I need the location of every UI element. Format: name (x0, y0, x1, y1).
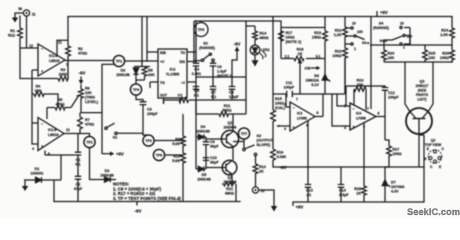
capacitor C4 0.001 (192, 63, 201, 77)
svg-text:S3: S3 (257, 134, 262, 138)
svg-text:5.6K: 5.6K (172, 142, 180, 146)
svg-text:100pF: 100pF (284, 86, 295, 90)
svg-text:R11: R11 (224, 104, 231, 108)
svg-text:C: C (430, 165, 433, 169)
capacitor C6 1.0uF (210, 61, 234, 78)
svg-text:R2: R2 (78, 47, 83, 51)
node -9V arrow mid (232, 42, 240, 78)
svg-text:1N914B: 1N914B (116, 73, 130, 77)
node +9V near S1 (102, 151, 124, 156)
svg-text:(SEE: (SEE (418, 89, 427, 93)
svg-text:-9V: -9V (135, 209, 142, 214)
svg-text:OUT: OUT (160, 94, 168, 98)
switch S4-b (373, 22, 412, 50)
svg-text:10K: 10K (148, 73, 155, 77)
svg-text:LM318: LM318 (48, 133, 59, 137)
resistor R27 100ohm (385, 140, 402, 167)
wire IC4 inputs (332, 94, 350, 126)
svg-text:R16: R16 (277, 151, 284, 155)
svg-text:TP4: TP4 (133, 88, 139, 92)
resistor R12 680ohm (222, 175, 236, 202)
svg-text:R7: R7 (85, 118, 90, 122)
svg-text:TH: TH (180, 51, 185, 55)
svg-text:100Ω: 100Ω (275, 102, 284, 106)
svg-text:R24: R24 (441, 29, 449, 33)
wire IC4 output col (376, 90, 385, 140)
svg-text:100Ω: 100Ω (332, 54, 341, 58)
svg-text:R28: R28 (354, 187, 361, 191)
ground under D1 (22, 180, 28, 191)
svg-text:D7: D7 (391, 181, 396, 185)
resistor R16 4.03K (271, 149, 288, 167)
wire IC2 right pins (187, 21, 196, 114)
svg-text:LM318: LM318 (49, 59, 60, 63)
svg-text:R17: R17 (286, 31, 293, 35)
svg-text:100pF: 100pF (388, 96, 399, 100)
svg-text:B: B (424, 157, 427, 161)
resistor (555 output) (179, 98, 189, 103)
resistor R3 100K (20, 48, 68, 81)
svg-text:2N6117: 2N6117 (416, 84, 429, 88)
resistor R20 10K (382, 45, 395, 62)
wire Q1 emitter col (232, 114, 234, 160)
svg-text:6: 6 (317, 111, 319, 115)
capacitor C14 1.0uF (338, 167, 350, 202)
svg-text:Q3: Q3 (431, 139, 436, 143)
wire TP1 to R9 col (125, 17, 150, 68)
svg-text:10K: 10K (85, 91, 92, 95)
svg-text:4: 4 (32, 147, 34, 151)
svg-text:51Ω: 51Ω (8, 34, 15, 38)
svg-text:Q1: Q1 (228, 121, 233, 125)
svg-text:C4: C4 (194, 68, 200, 72)
zener D7 1N748A 4.3V (382, 167, 405, 202)
svg-text:E: E (439, 165, 442, 169)
svg-text:1N914B: 1N914B (197, 178, 211, 182)
svg-text:4.03K: 4.03K (277, 155, 287, 159)
svg-text:3: 3 (284, 127, 286, 131)
svg-text:10K: 10K (388, 56, 395, 60)
svg-text:R8: R8 (175, 138, 180, 142)
wire IC3 pin4 drop (307, 121, 309, 167)
svg-text:C13: C13 (306, 189, 313, 193)
wire caps row100 (164, 100, 247, 104)
wire IC3 inputs (286, 94, 323, 117)
svg-text:100Ω: 100Ω (286, 36, 295, 40)
resistor R7 470ohm (78, 113, 95, 134)
capacitor C7 0.1 (210, 77, 216, 100)
svg-text:12: 12 (29, 44, 33, 48)
transistor Q1 2N3906 (206, 121, 239, 148)
op-amp IC1-b LM318 (32, 118, 70, 157)
resistor R10 5.6K (172, 153, 185, 202)
svg-text:S1: S1 (113, 136, 118, 140)
capacitor C13 .01 (305, 167, 313, 202)
resistor R9 10K (142, 67, 155, 80)
transistor Q3 2N6117 (406, 80, 432, 135)
transistor Q2 2N3904 (206, 160, 237, 184)
box R17 R19 (281, 17, 325, 59)
wire bus62 (384, 61, 453, 63)
svg-text:100pF: 100pF (147, 112, 158, 116)
svg-text:S4-a: S4-a (362, 41, 369, 45)
resistor R13 1K (253, 156, 266, 187)
svg-text:D1: D1 (35, 167, 40, 171)
capacitor C10 30pF (203, 156, 220, 165)
wire pin11 feedback (57, 40, 68, 55)
capacitor C5 0.1 (193, 87, 199, 98)
svg-text:+V: +V (160, 60, 165, 64)
resistor R1 51ohm (8, 16, 22, 49)
resistor R8 5.6K (172, 114, 185, 153)
svg-text:LF356: LF356 (297, 117, 307, 121)
svg-text:1.0μF: 1.0μF (229, 95, 239, 99)
capacitor C12 100pF (346, 86, 399, 106)
op-amp IC1-a LM318 (29, 41, 68, 77)
svg-text:(RANGE): (RANGE) (373, 26, 390, 30)
wire bottom left -9V rail (54, 201, 240, 203)
svg-text:S2: S2 (203, 42, 208, 46)
wire IC2 left pins (147, 17, 158, 89)
capacitor C3 100pF (136, 95, 158, 135)
svg-text:SLOPE): SLOPE) (257, 143, 271, 147)
wire +9V to IC4 pin7 (370, 17, 372, 110)
diode D2 1N914B (116, 67, 138, 81)
svg-text:100K: 100K (59, 73, 68, 77)
svg-text:1N4001: 1N4001 (31, 172, 44, 176)
svg-text:R25: R25 (429, 52, 436, 56)
IC2 TLC555 (158, 49, 187, 98)
svg-text:1.2K: 1.2K (334, 33, 342, 37)
svg-text:R6: R6 (85, 87, 90, 91)
wire TP5 box (194, 21, 281, 114)
svg-text:47μF: 47μF (74, 187, 83, 191)
wire mid -9V rail (288, 166, 424, 168)
svg-text:R27: R27 (393, 148, 400, 152)
svg-text:J1: J1 (32, 13, 36, 17)
resistor R2 470ohm (66, 17, 88, 61)
wire row94 (273, 58, 345, 94)
svg-text:C3: C3 (147, 108, 152, 112)
svg-text:2N3906: 2N3906 (224, 126, 237, 130)
svg-text:1K: 1K (356, 192, 361, 196)
capacitor C1 0.1 (75, 152, 81, 166)
wire IC1a output to TP1 (65, 60, 113, 62)
svg-text:1.0μF: 1.0μF (339, 193, 349, 197)
test point TP5 (194, 23, 208, 37)
svg-text:-9V: -9V (79, 71, 86, 76)
svg-text:R4: R4 (36, 85, 42, 89)
svg-text:R14: R14 (260, 32, 268, 36)
diode D4 1N914B (196, 125, 210, 140)
svg-text:(OUTPUT: (OUTPUT (257, 139, 274, 143)
svg-text:R19: R19 (314, 31, 321, 35)
resistor R19 150ohm (312, 31, 328, 59)
capacitor C9 30pF (203, 137, 220, 169)
svg-text:1.0K: 1.0K (440, 33, 448, 37)
svg-text:TP6: TP6 (156, 154, 162, 158)
svg-text:SeekIC.com: SeekIC.com (407, 207, 460, 217)
svg-text:(NOTE 2): (NOTE 2) (286, 40, 303, 44)
svg-text:1K: 1K (259, 170, 264, 174)
svg-text:R12: R12 (226, 187, 233, 191)
wire IC1b output (64, 134, 90, 153)
resistor R22 100ohm (332, 48, 347, 94)
svg-text:C14: C14 (339, 189, 347, 193)
svg-text:(CAL): (CAL) (275, 106, 286, 110)
op-amp IC4 LF356 (344, 103, 379, 130)
diode D5 1N914B (196, 166, 211, 181)
svg-text:D5: D5 (202, 173, 207, 177)
svg-text:1K: 1K (298, 52, 303, 56)
svg-text:TP2: TP2 (86, 141, 92, 145)
svg-text:680Ω: 680Ω (260, 36, 269, 40)
svg-text:6: 6 (378, 112, 380, 116)
svg-text:6.1V: 6.1V (311, 83, 319, 87)
svg-text:D2: D2 (121, 69, 126, 73)
node -9V above R6 (79, 71, 86, 85)
svg-text:IC1-b: IC1-b (48, 128, 56, 132)
svg-text:E: E (427, 147, 430, 151)
svg-text:10: 10 (352, 22, 356, 26)
svg-text:−: − (41, 122, 43, 126)
svg-text:LF356: LF356 (356, 117, 366, 121)
svg-text:R15: R15 (275, 97, 282, 101)
svg-text:30pF: 30pF (210, 161, 219, 165)
wire TP3 to R8 col (154, 140, 183, 142)
resistor R11 560ohm (196, 104, 233, 116)
svg-text:C9: C9 (210, 140, 215, 144)
svg-text:1N914B: 1N914B (100, 173, 114, 177)
svg-text:+: + (41, 70, 43, 74)
svg-text:680Ω: 680Ω (225, 192, 234, 196)
svg-text:(RANGE): (RANGE) (199, 46, 216, 50)
svg-text:-9V: -9V (234, 42, 241, 47)
svg-text:−: − (293, 106, 295, 110)
wire col196 (195, 100, 197, 169)
svg-text:R/B: R/B (160, 51, 166, 55)
wire plus input col (32, 70, 38, 144)
wire caps row77 (196, 76, 246, 78)
jack J1 (18, 7, 35, 17)
svg-text:R3: R3 (61, 68, 66, 72)
wire C1 row (45, 151, 75, 181)
svg-text:Q3: Q3 (420, 80, 425, 84)
potentiometer R6 10K TRIG LEVEL (71, 85, 102, 113)
capacitor C11 100pF (284, 81, 295, 97)
wire top +9V rail (68, 16, 452, 18)
svg-text:−: − (41, 47, 43, 51)
diode D3 1N914B lower (90, 148, 117, 183)
svg-text:C5: C5 (194, 89, 199, 93)
svg-text:-9V: -9V (280, 165, 287, 170)
wire TP6 to col (165, 154, 183, 156)
wire IC1b minus input (32, 122, 38, 124)
svg-text:C2: C2 (76, 183, 81, 187)
svg-text:CW: CW (305, 67, 312, 71)
resistor R21 1.2K (334, 17, 348, 49)
resistor R17 100ohm NOTE 2 (279, 31, 302, 44)
svg-text:C7: C7 (211, 91, 216, 95)
svg-text:.01: .01 (306, 193, 311, 197)
wire D2 R9 join to TP4 (136, 80, 145, 84)
svg-text:LEVEL): LEVEL) (85, 100, 99, 104)
capacitor C2 47uF (74, 155, 83, 202)
svg-text:C11: C11 (286, 81, 293, 85)
svg-text:IC4: IC4 (356, 112, 361, 116)
svg-text:(TRIG: (TRIG (85, 96, 95, 100)
svg-text:C: C (442, 147, 445, 151)
svg-text:3. TP = TEST POINTS (SEE FIG.4: 3. TP = TEST POINTS (SEE FIG.4) (113, 196, 181, 201)
svg-text:D6: D6 (314, 74, 319, 78)
resistor R4 15K (32, 85, 58, 108)
svg-text:1N914B: 1N914B (196, 130, 210, 134)
node +9V top (377, 10, 388, 17)
svg-text:LED1: LED1 (261, 48, 270, 52)
svg-text:TP7: TP7 (241, 132, 247, 136)
svg-text:R23: R23 (357, 79, 364, 83)
svg-text:10K: 10K (429, 56, 436, 60)
node +9V bottom right (293, 202, 303, 210)
svg-text:IC3: IC3 (297, 112, 302, 116)
node -9V bottom left (135, 202, 142, 214)
svg-text:R21: R21 (335, 29, 342, 33)
svg-text:470Ω: 470Ω (78, 52, 87, 56)
wire LED down arrow (252, 55, 259, 67)
svg-text:+: + (41, 145, 43, 149)
resistor R24 1.0K (440, 17, 454, 46)
potentiometer R15 100ohm CAL (271, 17, 290, 150)
svg-text:0.001: 0.001 (192, 72, 201, 76)
test point TP1 (113, 55, 124, 66)
test point TP3 (143, 135, 154, 146)
svg-text:−: − (353, 107, 355, 111)
wire IC4 pin4 drop (363, 123, 365, 168)
test point TP6 (153, 149, 164, 160)
resistor R14 680ohm (246, 26, 269, 45)
switch S1 (105, 123, 143, 139)
svg-text:3.1: 3.1 (316, 55, 321, 59)
svg-text:R1: R1 (10, 29, 15, 33)
wire Q3 leads (405, 62, 433, 202)
svg-text:1N823A: 1N823A (305, 79, 319, 83)
svg-text:1N748A: 1N748A (391, 185, 405, 189)
svg-text:IN: IN (18, 7, 22, 11)
svg-text:TG: TG (160, 81, 165, 85)
wire IC2 bottom pins (164, 98, 181, 104)
NOTES (113, 182, 181, 201)
svg-text:30pF: 30pF (210, 145, 219, 149)
svg-text:−V: −V (181, 81, 186, 85)
svg-text:+9V: +9V (296, 205, 304, 210)
switch S2 RANGE (194, 21, 216, 61)
svg-text:R13: R13 (259, 165, 266, 169)
svg-text:R18: R18 (297, 48, 304, 52)
svg-text:7: 7 (296, 98, 298, 102)
svg-text:560Ω: 560Ω (222, 109, 231, 113)
wire J1 down (26, 16, 28, 48)
svg-text:DIS: DIS (179, 60, 185, 64)
switch S4-a (345, 22, 369, 52)
svg-text:1: 1 (403, 46, 405, 50)
svg-text:IC2: IC2 (170, 68, 176, 72)
svg-text:LIST): LIST) (417, 98, 427, 102)
test point TP2 (84, 136, 95, 147)
ground under J1 (12, 13, 24, 23)
svg-text:100Ω: 100Ω (393, 152, 402, 156)
svg-text:C10: C10 (210, 156, 217, 160)
svg-text:5.6K: 5.6K (172, 159, 180, 163)
svg-text:1: 1 (354, 47, 356, 51)
wire bottom right rail (293, 201, 424, 203)
svg-text:10: 10 (400, 22, 404, 26)
resistor R26 100ohm (440, 45, 455, 62)
resistor R23 20K (354, 79, 366, 111)
svg-text:100: 100 (357, 30, 363, 34)
svg-text:4.3V: 4.3V (391, 190, 399, 194)
svg-text:+: + (353, 125, 355, 129)
svg-text:TLC555: TLC555 (166, 73, 179, 77)
svg-text:D4: D4 (201, 125, 207, 129)
svg-text:150Ω: 150Ω (312, 36, 321, 40)
svg-text:0.1: 0.1 (211, 95, 216, 99)
zener D6 1N823A 6.1V (305, 59, 330, 95)
wire to bottom rail (53, 180, 55, 202)
svg-text:R20: R20 (388, 52, 395, 56)
svg-text:7: 7 (367, 107, 369, 111)
svg-text:+9V: +9V (116, 152, 124, 157)
svg-text:470Ω: 470Ω (55, 103, 64, 107)
svg-text:C6: C6 (217, 65, 222, 69)
Q3 top view (424, 139, 444, 170)
svg-text:R5: R5 (58, 98, 63, 102)
svg-text:R22: R22 (335, 50, 342, 54)
op-amp IC3 LF356 (284, 98, 318, 132)
svg-text:C8: C8 (229, 91, 234, 95)
svg-text:12: 12 (66, 128, 70, 132)
svg-text:100Ω: 100Ω (440, 56, 449, 60)
svg-text:TP3: TP3 (145, 139, 151, 143)
svg-text:R9: R9 (148, 69, 153, 73)
capacitor C8 1.0uF (229, 77, 240, 100)
potentiometer R18 1K (285, 48, 321, 95)
wire input node (20, 47, 38, 49)
svg-text:S4: S4 (379, 22, 384, 26)
LED1 (250, 45, 270, 59)
svg-text:TP5: TP5 (198, 28, 204, 32)
resistor R25 10K (423, 45, 436, 62)
resistor R5 470ohm (47, 98, 71, 119)
svg-text:+9V: +9V (380, 10, 388, 15)
svg-text:+: + (293, 126, 295, 130)
svg-text:470Ω: 470Ω (85, 123, 94, 127)
svg-text:C12: C12 (388, 91, 395, 95)
ground right of J2 (259, 190, 278, 212)
diode D1 1N4001 (24, 167, 61, 183)
svg-text:TP1: TP1 (116, 60, 122, 64)
svg-text:R26: R26 (442, 52, 449, 56)
jack J2 (252, 187, 264, 193)
wire S1 riser (102, 64, 115, 153)
switch S3 OUTPUT SLOPE (233, 134, 274, 156)
svg-text:IC1-a: IC1-a (49, 54, 57, 58)
svg-text:2.1: 2.1 (285, 55, 290, 59)
svg-text:11: 11 (58, 41, 62, 45)
svg-text:0.1: 0.1 (194, 94, 199, 98)
node CW (305, 66, 321, 71)
svg-text:1.0μF: 1.0μF (217, 70, 227, 74)
wire S4 bus (370, 36, 449, 45)
